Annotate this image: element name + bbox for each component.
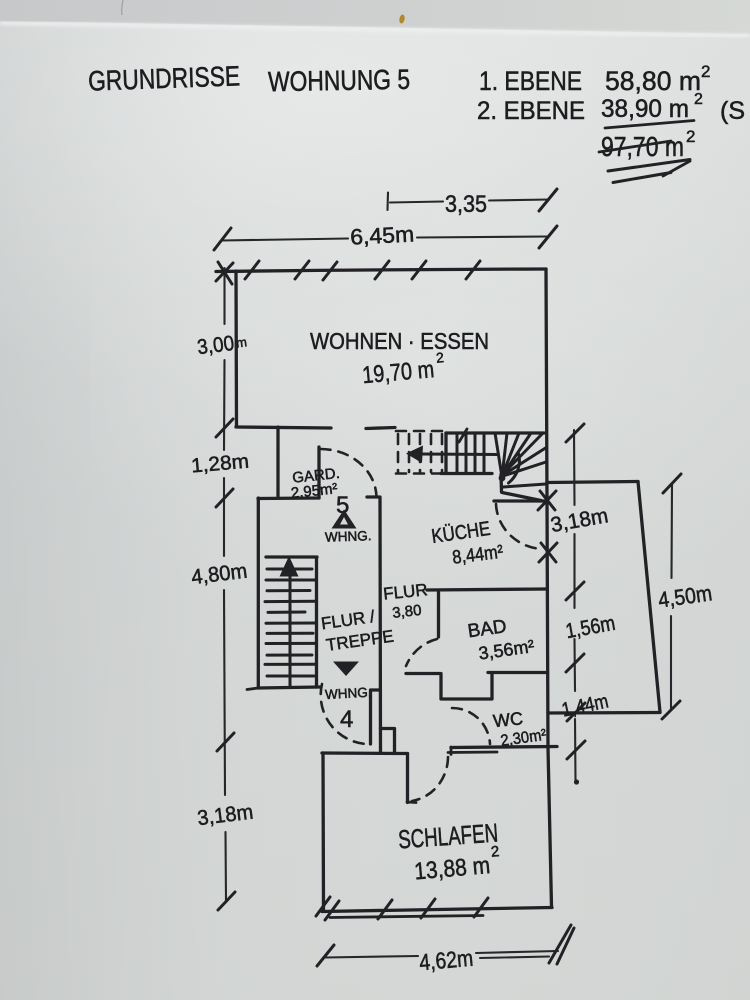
schlafen top wall	[322, 751, 408, 755]
kueche door wall	[494, 499, 546, 502]
stair box bottom wall	[258, 687, 320, 688]
upper winder stair box	[441, 433, 544, 474]
dim 4,62m bottom	[317, 925, 574, 975]
label 4,80m	[190, 560, 248, 590]
label WHNG. 4	[325, 685, 372, 702]
wall pocket left of flur wall	[371, 690, 381, 744]
winder left edge	[499, 475, 503, 493]
wall under gard	[258, 496, 319, 500]
gard door jamb	[317, 447, 320, 498]
down triangle whg4	[333, 662, 359, 677]
left wall wohnen-essen	[234, 271, 238, 426]
svg-text:2. EBENE: 2. EBENE	[477, 97, 585, 125]
svg-text:3,80: 3,80	[391, 602, 422, 622]
winder fan treads	[495, 433, 546, 487]
label 13,88 m2	[413, 843, 502, 885]
schlafen left wall	[321, 753, 325, 911]
hair scratch top	[122, 0, 123, 15]
dim 3,35 top	[388, 189, 558, 218]
lower stair treads	[265, 569, 316, 676]
title GRUNDRISSE	[88, 60, 241, 96]
svg-text:WC: WC	[492, 708, 524, 731]
svg-text:2: 2	[490, 843, 500, 861]
winder bottom slant	[502, 493, 541, 501]
svg-text:3,00: 3,00	[196, 332, 236, 359]
left dim line column	[216, 263, 235, 910]
label FLUR TREPPE	[320, 605, 395, 655]
bad top wall	[427, 589, 547, 590]
lower stair up arrow	[280, 556, 299, 577]
label 1,28m	[190, 451, 250, 478]
stair direction arrow	[420, 453, 498, 457]
paper edge highlight	[0, 23, 750, 36]
lower stair center rail	[289, 563, 292, 687]
area text 1. EBENE 58,80 m2	[479, 62, 710, 96]
gard left wall	[276, 427, 279, 497]
label 1,56m	[564, 612, 617, 643]
underline under 38,90	[605, 121, 694, 129]
whg4 door arc	[321, 684, 366, 744]
svg-text:2: 2	[694, 91, 703, 108]
label 3,18m left	[196, 801, 254, 831]
entry top wall piece	[366, 428, 395, 429]
svg-text:WHNG.: WHNG.	[325, 685, 372, 702]
left outer wall stairs	[257, 498, 260, 688]
double underline	[608, 160, 690, 172]
svg-text:4: 4	[340, 706, 353, 733]
svg-text:58,80 m: 58,80 m	[605, 66, 701, 96]
bad left wall	[437, 591, 440, 637]
right dim line column	[566, 424, 585, 785]
top wall wohnen-essen with window ticks	[216, 261, 546, 284]
small tick on stair top edge	[459, 429, 467, 442]
label WHNG. 5	[325, 528, 372, 545]
label WC 2,30m2	[492, 708, 524, 731]
svg-text:m: m	[235, 334, 248, 350]
dim 6,45m	[214, 221, 557, 250]
schlafen bottom wall with window ticks	[316, 897, 552, 920]
lighter sheen top title band	[0, 0, 750, 420]
svg-text:4,62m: 4,62m	[418, 945, 474, 976]
dim 4,50m line	[657, 474, 714, 719]
svg-text:38,90 m: 38,90 m	[601, 95, 689, 123]
svg-text:2: 2	[701, 62, 710, 81]
bold x mark corner 552	[539, 543, 557, 562]
label KUECHE 8,44m2	[430, 518, 491, 548]
flur right wall	[378, 497, 382, 753]
sum 97,70 m2	[601, 127, 695, 162]
svg-text:2: 2	[435, 349, 444, 366]
room label 19,70 m2	[361, 349, 447, 389]
svg-text:(S: (S	[720, 97, 745, 125]
dashed upper flight	[398, 434, 442, 472]
svg-text:1. EBENE: 1. EBENE	[479, 66, 582, 96]
bad lower step walls	[406, 673, 547, 700]
label BAD 3,56m2	[466, 616, 508, 642]
svg-text:2: 2	[686, 127, 695, 146]
schlafen door jamb wall	[406, 754, 409, 803]
balcony right slant edge	[638, 482, 660, 713]
entry door arc whg5	[321, 449, 377, 497]
label SCHLAFEN	[397, 818, 499, 855]
balcony bottom edge	[548, 711, 660, 715]
svg-text:GRUNDRISSE: GRUNDRISSE	[88, 60, 241, 96]
wc bottom wall	[451, 747, 557, 748]
right wall main (top to schlafen corner)	[546, 269, 552, 907]
svg-text:6,45m: 6,45m	[350, 221, 415, 249]
label 3,18m right	[549, 504, 610, 537]
upper stair treads	[457, 434, 484, 474]
bold x mark corner 500	[538, 491, 556, 510]
schlafen door arc	[412, 757, 448, 801]
label FLUR 3,80	[382, 580, 430, 622]
label 1,44m	[560, 690, 611, 721]
lower stair box top and right	[266, 557, 317, 687]
bad door arc	[406, 639, 437, 666]
flur wall jog	[381, 729, 395, 754]
area text 2. EBENE 38,90 m2 (S	[477, 91, 745, 125]
gard top wall	[236, 427, 331, 428]
balcony top edge	[547, 482, 638, 483]
svg-text:WOHNEN · ESSEN: WOHNEN · ESSEN	[310, 328, 489, 354]
flur top cap	[367, 495, 379, 498]
label 3,00	[196, 330, 248, 359]
title WOHNUNG 5	[268, 64, 411, 97]
winder inner curve	[509, 454, 520, 484]
table surface strip above paper edge	[0, 0, 750, 34]
svg-text:WOHNUNG 5: WOHNUNG 5	[268, 64, 411, 97]
warn triangle whg5	[332, 510, 357, 529]
svg-text:3,35: 3,35	[445, 191, 487, 218]
wc door arc	[452, 708, 490, 744]
kueche door arc	[496, 504, 542, 549]
label GARD 2,95m2	[289, 465, 343, 502]
strike through 97,70	[599, 141, 671, 152]
orange speck	[399, 14, 406, 24]
svg-text:WHNG.: WHNG.	[325, 528, 372, 545]
